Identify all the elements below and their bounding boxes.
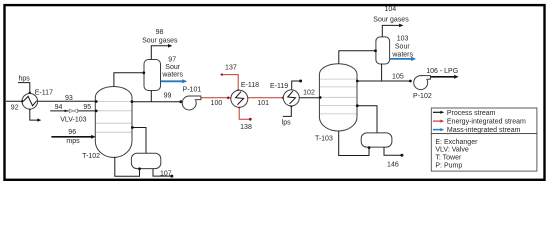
reboiler drum of T-103: [361, 133, 392, 147]
stream 137 line: [222, 75, 238, 91]
drum V-102 bottoms line: [150, 91, 152, 102]
exchanger E-117: [22, 94, 38, 110]
legend energy-integrated stream arrow: [433, 120, 441, 122]
svg-text:Sour gases: Sour gases: [373, 16, 409, 23]
pump P-101: [182, 96, 196, 110]
svg-text:100: 100: [211, 100, 223, 107]
T-102 bottoms to reboiler: [115, 157, 140, 176]
exchanger E-119: [283, 90, 299, 106]
tower T-102 trays: [96, 101, 131, 103]
svg-text:94: 94: [55, 104, 63, 111]
svg-text:T-103: T-103: [315, 135, 333, 142]
wire stream 95: [78, 110, 96, 112]
svg-text:E-117: E-117: [35, 90, 53, 97]
svg-text:hps: hps: [18, 75, 30, 82]
node 102 at T-103 wall: [319, 96, 322, 99]
svg-text:Mass-integrated stream: Mass-integrated stream: [447, 127, 521, 134]
svg-text:103: 103: [397, 36, 409, 43]
stream 103 blue arrow: [390, 58, 412, 60]
wire stream 105: [357, 80, 410, 82]
node downcomer at T-102 wall: [131, 126, 134, 129]
svg-text:95: 95: [83, 104, 91, 111]
reboiler drum of T-102: [131, 153, 160, 168]
svg-text:P-101: P-101: [183, 87, 202, 94]
node 99 at pump inlet: [179, 100, 182, 103]
legend mass-integrated stream arrow: [433, 129, 441, 131]
svg-text:101: 101: [257, 100, 269, 107]
legend box streams: [431, 108, 537, 134]
svg-text:waters: waters: [391, 51, 413, 58]
svg-text:VLV-103: VLV-103: [60, 117, 86, 124]
svg-text:98: 98: [156, 29, 164, 36]
svg-text:138: 138: [240, 124, 252, 131]
svg-text:102: 102: [303, 90, 315, 97]
wire stream 146: [384, 147, 401, 155]
tower T-103 trays: [320, 78, 356, 80]
reflux drum V-102: [144, 60, 161, 91]
svg-text:T: Tower: T: Tower: [435, 155, 462, 162]
svg-text:E-119: E-119: [270, 83, 288, 90]
hps inlet line: [18, 83, 30, 93]
svg-text:Sour: Sour: [395, 44, 410, 51]
node overhead at drum: [142, 71, 145, 74]
E-119 top line: [292, 81, 300, 90]
stream 98 sour gases line: [151, 46, 169, 60]
legend box abbreviations: [431, 134, 537, 172]
wire stream 94: [50, 110, 69, 112]
svg-text:106 - LPG: 106 - LPG: [426, 68, 458, 75]
svg-text:mps: mps: [66, 138, 80, 145]
svg-text:E-118: E-118: [241, 82, 259, 89]
pump P-102: [414, 76, 428, 90]
stream 104 sour gases line: [382, 25, 400, 36]
node overhead at drum V-103: [374, 49, 377, 52]
pump P-101 discharge stream 100: [201, 97, 231, 99]
drum V-103 bottoms line: [381, 64, 383, 81]
wire stream 93: [37, 100, 96, 102]
svg-text:Process stream: Process stream: [447, 110, 496, 117]
wire stream 96 mps: [51, 136, 92, 138]
T-103 reboiler feed line: [357, 106, 377, 133]
svg-text:waters: waters: [161, 71, 183, 78]
reflux drum V-103: [376, 37, 390, 64]
svg-text:146: 146: [387, 161, 399, 168]
node 99 at T-102 wall: [131, 100, 134, 103]
node 105 at pump inlet: [409, 80, 412, 83]
svg-text:99: 99: [164, 92, 172, 99]
svg-text:VLV: Valve: VLV: Valve: [435, 147, 468, 154]
T-103 bottoms to reboiler: [339, 131, 369, 156]
pump P-102 discharge stream 106: [430, 76, 455, 78]
wire stream 99: [132, 101, 181, 103]
svg-text:104: 104: [384, 6, 396, 13]
node reboiler2 bottom inlet: [368, 146, 371, 149]
node reboiler feed at T-103 wall: [356, 104, 359, 107]
wire stream 101: [248, 97, 284, 99]
svg-text:137: 137: [225, 64, 237, 71]
node reboiler bottom inlet: [138, 167, 141, 170]
svg-text:Energy-integrated stream: Energy-integrated stream: [447, 119, 526, 126]
node feed 95 at T-102: [95, 110, 98, 113]
exchanger E-118: [231, 90, 248, 107]
legend process stream arrow: [433, 111, 441, 113]
svg-text:93: 93: [65, 95, 73, 102]
node feed 93 at T-102: [95, 100, 98, 103]
svg-text:Sour gases: Sour gases: [142, 38, 178, 45]
tower T-102: [95, 87, 132, 158]
valve VLV-103: [69, 109, 77, 113]
svg-text:Sour: Sour: [165, 64, 180, 71]
svg-text:P-102: P-102: [413, 93, 432, 100]
outer frame: [5, 5, 545, 180]
T-102 overhead line: [114, 73, 144, 87]
svg-text:97: 97: [168, 56, 176, 63]
svg-text:92: 92: [11, 104, 19, 111]
node reflux at T-103 wall: [356, 80, 359, 83]
wire stream 92: [6, 100, 23, 102]
svg-text:P: Pump: P: Pump: [435, 162, 462, 169]
T-103 overhead line: [339, 51, 376, 64]
lps line: [283, 106, 292, 116]
E-117 condensate outlet: [30, 109, 39, 120]
svg-text:105: 105: [392, 73, 404, 80]
tower T-103: [319, 64, 357, 131]
svg-text:107: 107: [160, 170, 172, 177]
node E-117 bottom junction: [29, 108, 32, 111]
svg-text:96: 96: [68, 129, 76, 136]
svg-text:T-102: T-102: [82, 153, 100, 160]
T-102 reboiler downcomer: [132, 128, 146, 154]
svg-text:lps: lps: [282, 120, 291, 127]
node hps-E117 junction: [29, 92, 32, 95]
svg-text:E: Exchanger: E: Exchanger: [435, 139, 478, 146]
stream 138 line: [239, 107, 250, 119]
stream 97 blue arrow: [161, 80, 184, 82]
wire stream 102: [299, 97, 320, 99]
wire stream 107: [153, 169, 171, 176]
